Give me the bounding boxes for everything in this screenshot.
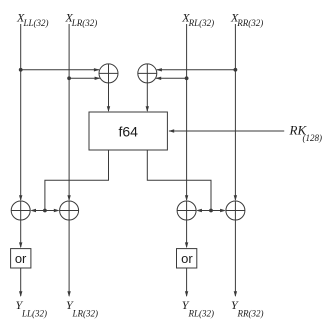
svg-text:LL(32): LL(32) [21,308,47,318]
svg-text:LR(32): LR(32) [71,18,98,28]
svg-text:LR(32): LR(32) [72,308,99,318]
svg-text:(128): (128) [303,133,323,143]
svg-text:RL(32): RL(32) [188,18,215,28]
svg-text:RR(32): RR(32) [237,308,264,318]
svg-text:LL(32): LL(32) [23,18,49,28]
svg-text:RL(32): RL(32) [188,308,215,318]
svg-text:or: or [181,251,193,266]
svg-text:f64: f64 [118,124,138,140]
svg-text:or: or [15,251,27,266]
svg-text:RR(32): RR(32) [236,18,263,28]
